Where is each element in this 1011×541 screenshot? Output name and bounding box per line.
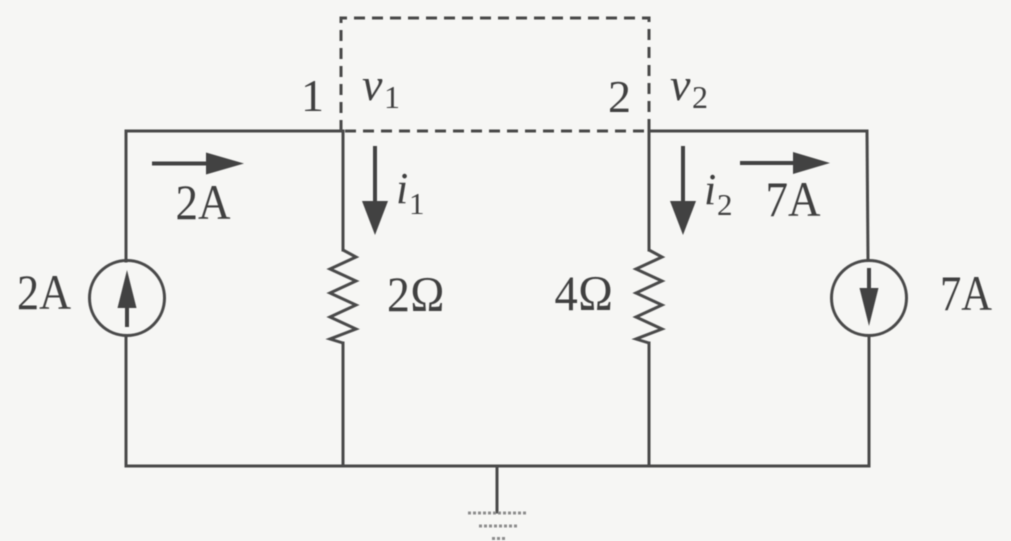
wire right branch lower <box>868 336 871 466</box>
wire bottom <box>126 465 867 468</box>
current source I1 circle <box>90 261 165 336</box>
svg-text:2A: 2A <box>176 174 231 230</box>
wire right branch upper <box>867 131 868 260</box>
svg-text:2: 2 <box>692 79 708 115</box>
arrow i1 down <box>362 146 388 235</box>
svg-text:v: v <box>670 59 691 110</box>
ground <box>468 513 527 539</box>
svg-text:2Ω: 2Ω <box>387 266 445 322</box>
resistor R2 4ohm zigzag <box>636 250 662 343</box>
wire resistor R2 to bottom <box>648 343 651 466</box>
svg-text:4Ω: 4Ω <box>555 265 614 321</box>
resistor R1 2ohm zigzag <box>330 250 356 343</box>
wire ground stem <box>496 466 499 512</box>
wire node 1 to resistor <box>342 131 345 250</box>
wire node 2 to resistor <box>648 131 651 250</box>
svg-text:2: 2 <box>608 71 631 122</box>
wire left branch lower <box>125 336 128 466</box>
wire top-right (node 2 to right corner) <box>649 130 867 133</box>
svg-text:v: v <box>362 59 383 110</box>
arrow i2 down <box>670 146 696 235</box>
svg-text:1: 1 <box>301 70 324 121</box>
current source I1 arrow up <box>118 270 137 327</box>
wire left branch upper <box>125 131 128 261</box>
current source I2 arrow down <box>860 268 879 326</box>
svg-text:7A: 7A <box>766 171 821 227</box>
svg-text:2: 2 <box>717 187 733 222</box>
wire top-left (node A to node 1) <box>126 130 343 133</box>
arrow 7A current direction <box>740 152 830 174</box>
svg-text:7A: 7A <box>940 265 992 321</box>
svg-text:2A: 2A <box>17 264 71 320</box>
svg-text:1: 1 <box>409 186 425 221</box>
svg-text:i: i <box>396 164 408 213</box>
wire resistor R1 to bottom <box>342 343 345 466</box>
svg-text:i: i <box>704 165 716 214</box>
current source I2 circle <box>832 261 907 336</box>
svg-text:1: 1 <box>384 79 400 115</box>
arrow 2A current direction <box>152 153 244 175</box>
supernode dashed box <box>341 18 649 131</box>
